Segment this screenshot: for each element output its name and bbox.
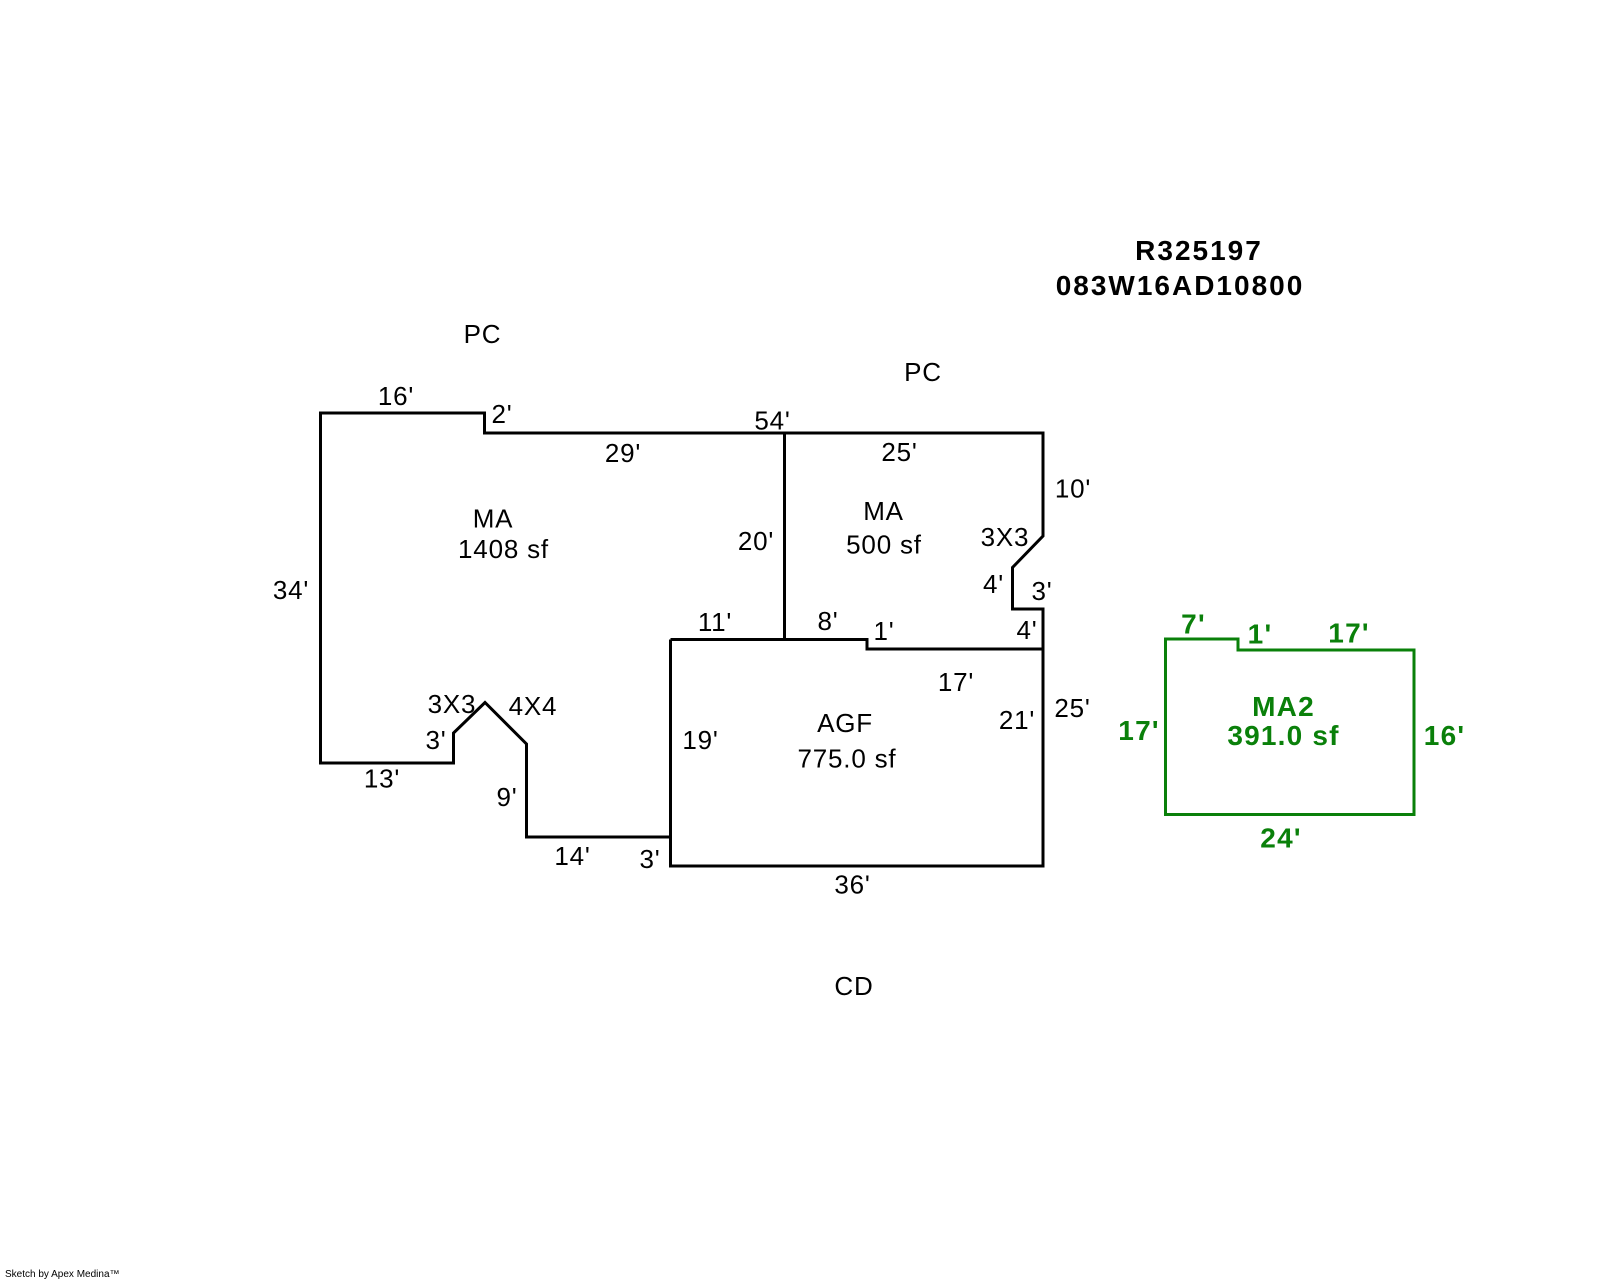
svg-text:7': 7' bbox=[1181, 609, 1206, 640]
svg-text:20': 20' bbox=[738, 526, 774, 556]
svg-text:1': 1' bbox=[873, 616, 894, 646]
main floor plan outline (MA + MA + AGF perimeter) bbox=[321, 413, 1044, 866]
svg-text:1': 1' bbox=[1248, 619, 1273, 650]
svg-text:16': 16' bbox=[1424, 720, 1465, 751]
svg-text:1408 sf: 1408 sf bbox=[458, 534, 549, 564]
svg-text:13': 13' bbox=[364, 764, 400, 794]
svg-text:PC: PC bbox=[464, 319, 502, 349]
svg-text:4': 4' bbox=[983, 569, 1004, 599]
svg-text:PC: PC bbox=[904, 357, 942, 387]
svg-text:16': 16' bbox=[378, 381, 414, 411]
svg-text:AGF: AGF bbox=[817, 708, 873, 738]
svg-text:Sketch by Apex Medina™: Sketch by Apex Medina™ bbox=[5, 1269, 120, 1280]
interior wall 11'+8' top of AGF bbox=[671, 638, 868, 641]
svg-text:25': 25' bbox=[1054, 693, 1090, 723]
svg-text:MA: MA bbox=[863, 496, 904, 526]
svg-text:2': 2' bbox=[491, 399, 512, 429]
svg-text:17': 17' bbox=[1118, 715, 1159, 746]
svg-text:500 sf: 500 sf bbox=[846, 530, 922, 560]
svg-text:54': 54' bbox=[754, 406, 790, 436]
svg-text:29': 29' bbox=[605, 438, 641, 468]
svg-text:MA: MA bbox=[473, 504, 514, 534]
svg-text:17': 17' bbox=[1328, 618, 1369, 649]
svg-text:4X4: 4X4 bbox=[509, 691, 558, 721]
svg-text:8': 8' bbox=[817, 606, 838, 636]
svg-text:25': 25' bbox=[881, 437, 917, 467]
interior wall 19' left side of AGF bbox=[669, 640, 672, 839]
svg-text:10': 10' bbox=[1055, 474, 1091, 504]
svg-text:MA2: MA2 bbox=[1252, 691, 1315, 722]
svg-text:14': 14' bbox=[554, 841, 590, 871]
svg-text:9': 9' bbox=[496, 782, 517, 812]
svg-text:17': 17' bbox=[938, 667, 974, 697]
svg-text:3X3: 3X3 bbox=[428, 689, 477, 719]
interior wall 20' between MA 1408 and MA 500 bbox=[783, 433, 786, 640]
svg-text:083W16AD10800: 083W16AD10800 bbox=[1056, 270, 1305, 301]
svg-text:3': 3' bbox=[639, 844, 660, 874]
svg-text:34': 34' bbox=[273, 575, 309, 605]
svg-text:11': 11' bbox=[698, 607, 732, 637]
svg-text:3': 3' bbox=[1031, 576, 1052, 606]
svg-text:391.0 sf: 391.0 sf bbox=[1227, 720, 1339, 751]
svg-text:36': 36' bbox=[834, 870, 870, 900]
svg-text:4': 4' bbox=[1016, 615, 1037, 645]
svg-text:24': 24' bbox=[1260, 823, 1301, 854]
svg-text:R325197: R325197 bbox=[1135, 235, 1263, 266]
svg-text:3X3: 3X3 bbox=[981, 522, 1030, 552]
svg-text:19': 19' bbox=[682, 725, 718, 755]
interior wall 17' top of AGF right bbox=[866, 648, 1044, 651]
svg-text:CD: CD bbox=[834, 971, 873, 1001]
svg-text:21': 21' bbox=[999, 705, 1035, 735]
interior wall 1' step bbox=[866, 638, 869, 649]
svg-text:775.0 sf: 775.0 sf bbox=[798, 744, 897, 774]
svg-text:3': 3' bbox=[425, 725, 446, 755]
green addition MA2 outline bbox=[1166, 639, 1415, 815]
